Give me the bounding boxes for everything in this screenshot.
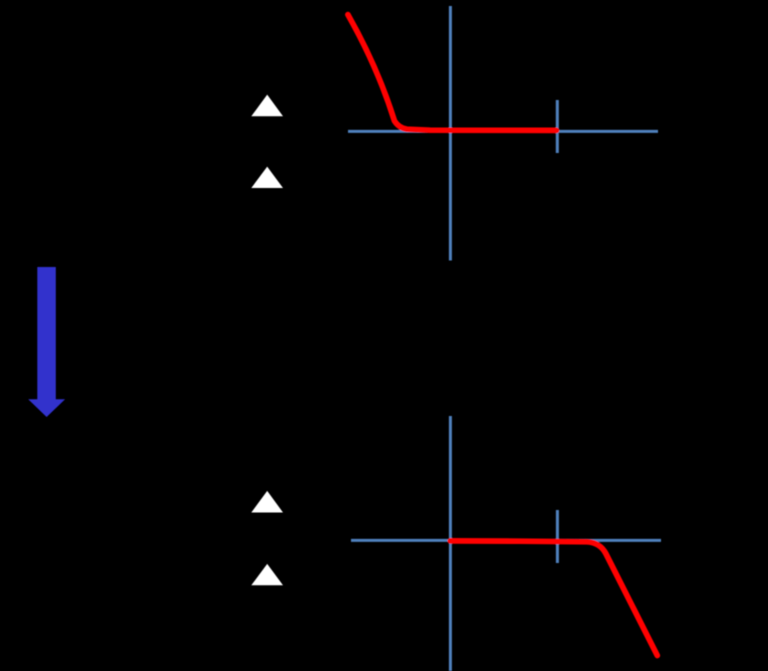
bottom graph red potential curve — [450, 541, 657, 656]
white triangle 3 (bottom pair, upper) — [251, 491, 283, 513]
top graph tick mark — [556, 100, 559, 153]
blue down arrow — [28, 267, 65, 417]
white triangle 4 (bottom pair, lower) — [251, 564, 283, 585]
white triangle 1 (top pair, upper) — [251, 95, 283, 117]
bottom graph tick mark — [556, 510, 559, 563]
top graph vertical axis — [449, 6, 452, 261]
white triangle 2 (top pair, lower) — [251, 167, 283, 188]
bottom graph horizontal axis — [351, 539, 661, 542]
bottom graph vertical axis — [449, 416, 452, 671]
top graph horizontal axis — [348, 130, 658, 133]
top graph red potential curve — [348, 15, 557, 131]
